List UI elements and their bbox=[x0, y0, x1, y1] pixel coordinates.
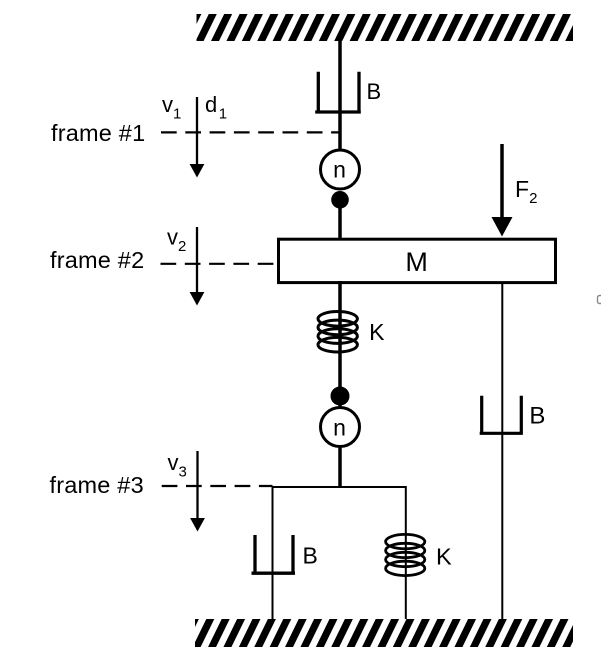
wire rod from ceiling through damper B1 to gear n1 bbox=[338, 38, 342, 155]
middle branch wire to floor bbox=[405, 486, 407, 619]
mass M rectangle bbox=[279, 239, 556, 282]
frame #3 dashed line bbox=[162, 485, 273, 487]
spring K1 coil bbox=[318, 312, 357, 353]
frame #2 dashed line bbox=[161, 263, 279, 265]
floor wall (hatched ground) bbox=[195, 619, 573, 647]
svg-text:v1: v1 bbox=[162, 92, 181, 123]
svg-text:K: K bbox=[369, 319, 385, 345]
svg-text:B: B bbox=[529, 403, 545, 430]
spring K2 coil (lower) bbox=[386, 534, 425, 575]
wire rod from dot to mass top bbox=[338, 206, 342, 241]
svg-text:K: K bbox=[436, 543, 452, 569]
left branch wire to floor bbox=[272, 486, 274, 619]
junction horizontal wire at frame #3 bbox=[273, 486, 406, 488]
force arrow F2 bbox=[492, 144, 513, 237]
svg-text:n: n bbox=[333, 157, 346, 183]
frame #1 dashed line bbox=[161, 131, 339, 133]
svg-text:v2: v2 bbox=[167, 224, 186, 255]
wire rod right branch from mass bottom to floor bbox=[501, 282, 503, 619]
transformer circle n1 bbox=[321, 150, 360, 189]
frame #1 velocity arrow v1 bbox=[190, 97, 205, 178]
svg-text:B: B bbox=[303, 543, 318, 569]
svg-text:F2: F2 bbox=[515, 176, 537, 207]
svg-text:frame #2: frame #2 bbox=[50, 247, 144, 273]
wire rod from dot2 through gear n2 to junction bbox=[338, 398, 342, 487]
damper B2 cup (right branch) bbox=[480, 396, 523, 434]
svg-text:frame #1: frame #1 bbox=[51, 120, 145, 146]
svg-text:B: B bbox=[367, 79, 382, 104]
transformer circle n2 bbox=[321, 408, 360, 447]
wire rod from mass bottom through spring K1 to dot2 bbox=[338, 281, 342, 398]
frame #3 velocity arrow v3 bbox=[190, 451, 205, 532]
svg-text:frame #3: frame #3 bbox=[50, 472, 144, 498]
stray grey mark at right edge bbox=[598, 296, 601, 304]
svg-text:d1: d1 bbox=[205, 92, 227, 123]
node dot between n1 and mass bbox=[331, 191, 349, 209]
svg-text:v3: v3 bbox=[168, 450, 187, 481]
svg-text:n: n bbox=[333, 415, 346, 441]
frame #2 velocity arrow v2 bbox=[190, 227, 205, 306]
damper B3 cup (lower left) bbox=[252, 535, 296, 573]
damper B1 cup bbox=[315, 72, 361, 112]
node dot above n2 bbox=[331, 387, 350, 406]
svg-text:M: M bbox=[405, 247, 428, 277]
ceiling wall (hatched ground) bbox=[197, 14, 574, 41]
